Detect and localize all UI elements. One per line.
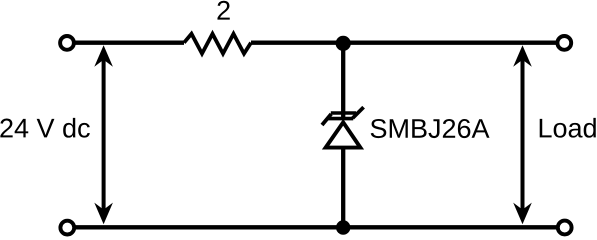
label Load bbox=[540, 118, 596, 138]
terminal circle top-right bbox=[557, 36, 571, 50]
wire diode branch upper bbox=[341, 43, 345, 118]
label SMBJ26A bbox=[371, 119, 490, 138]
TVS diode D SMBJ26A anode triangle bbox=[326, 122, 361, 147]
load arrow head up right bbox=[513, 45, 532, 67]
wire bottom bbox=[75, 225, 557, 229]
terminal circle bottom-right bbox=[558, 221, 572, 235]
wire diode branch lower bbox=[341, 148, 345, 227]
terminal circle bottom-left bbox=[60, 221, 74, 235]
load arrow shaft right bbox=[521, 58, 525, 212]
voltage arrow shaft left bbox=[102, 58, 106, 212]
junction dot top node bbox=[336, 36, 351, 51]
wire top-left segment bbox=[75, 41, 184, 45]
voltage arrow head up left bbox=[94, 45, 113, 67]
junction dot bottom node bbox=[336, 220, 350, 234]
TVS diode D SMBJ26A cathode bar bbox=[322, 107, 364, 125]
terminal circle top-left bbox=[60, 36, 74, 50]
voltage arrow head down left bbox=[94, 203, 113, 225]
resistor value label 2 bbox=[217, 1, 229, 20]
wire top-right segment bbox=[251, 41, 557, 45]
label 24 V dc bbox=[0, 118, 89, 138]
resistor R 2 ohm bbox=[184, 34, 251, 54]
load arrow head down right bbox=[513, 203, 532, 225]
